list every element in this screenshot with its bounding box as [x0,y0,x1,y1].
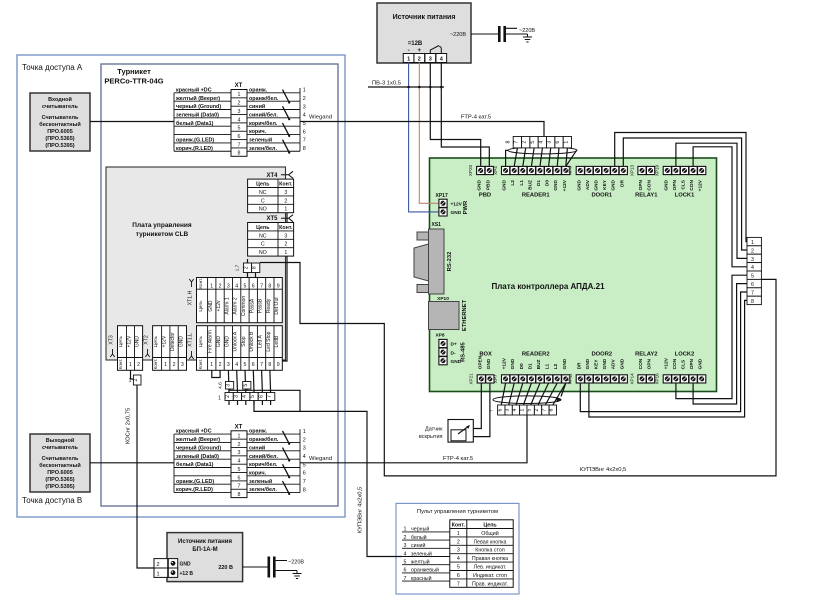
svg-text:7: 7 [513,141,519,144]
svg-text:~220В: ~220В [288,560,304,566]
svg-text:GND: GND [180,562,192,568]
wire: LOCK1 CON to cable cell 4 [693,147,747,267]
svg-text:2: 2 [404,535,407,541]
svg-text:2: 2 [173,362,176,368]
svg-text:2: 2 [133,378,139,381]
mains plug 220V (bottom) [243,566,268,568]
svg-text:2: 2 [418,57,421,63]
svg-text:3: 3 [404,543,407,549]
svg-text:Цепь: Цепь [153,335,159,347]
cable bundle ellipse READER2 [493,396,561,404]
svg-text:XP7: XP7 [493,374,498,383]
svg-text:DR: DR [619,179,625,186]
svg-text:~220В: ~220В [450,32,466,38]
svg-text:(ПРО.5395): (ПРО.5395) [45,484,74,490]
svg-text:CLS: CLS [681,359,687,369]
svg-text:+12 В: +12 В [180,571,194,577]
svg-text:L2: L2 [510,180,516,186]
svg-text:PERCo-TTR-04G: PERCo-TTR-04G [104,77,163,86]
svg-text:Кнопка стоп: Кнопка стоп [475,548,505,554]
pult wire list [402,531,450,533]
connector XP11 (DOOR2) [568,351,628,384]
svg-text:2: 2 [751,248,754,254]
svg-text:GND: GND [135,336,141,348]
svg-text:7: 7 [303,138,306,144]
svg-text:2: 2 [522,141,528,144]
svg-text:~220В: ~220В [519,28,535,34]
svg-text:синий: синий [249,444,265,451]
svg-text:GND: GND [451,210,462,216]
tamper switch (Datchik vskrytiya) [419,420,473,443]
svg-text:3: 3 [429,57,432,63]
svg-text:←: ← [489,408,495,414]
svg-text:Источник питания: Источник питания [178,539,232,545]
svg-text:PBD: PBD [479,193,491,199]
svg-text:ETHERNET: ETHERNET [462,299,468,331]
svg-text:1: 1 [210,362,213,368]
READER1 cable wire numbers [506,137,572,148]
svg-text:5: 5 [303,462,306,468]
svg-text:XT4: XT4 [266,173,278,179]
svg-text:Det Out: Det Out [274,297,280,315]
wires: XP21 BOX to tamper switch [473,383,490,437]
svg-text:XP9: XP9 [568,166,573,175]
svg-text:5: 5 [530,141,536,144]
svg-text:корич/бел.: корич/бел. [249,120,278,127]
svg-text:черный: черный [411,526,429,533]
wire: XT4/XT5 contacts bus [282,211,288,361]
svg-text:READER1: READER1 [522,193,550,199]
svg-text:PassA: PassA [249,298,255,313]
wires: READER1 cells to XP4 pins [506,150,509,166]
connector XT1.L [188,326,283,371]
svg-text:5: 5 [527,408,533,411]
svg-text:3: 3 [505,408,511,411]
svg-text:бесконтактный: бесконтактный [39,121,80,128]
svg-text:ADV: ADV [611,358,617,369]
svg-text:синий: синий [411,542,425,549]
svg-text:4: 4 [235,362,238,368]
wire: LOCK2 CON to cable cell 5 [676,275,747,398]
wire: LOCK1 OPN to cable cell 3 [676,143,747,258]
svg-text:Индикат. стоп: Индикат. стоп [473,573,507,579]
svg-text:4: 4 [457,556,460,562]
svg-text:C: C [261,242,265,248]
svg-text:6: 6 [457,573,460,579]
svg-text:RS-485: RS-485 [461,341,467,361]
svg-text:Wiegand: Wiegand [309,115,332,121]
svg-text:CON: CON [689,179,695,190]
svg-text:Выходной: Выходной [46,437,74,444]
wire: DOOR1 DR to cable cell 2 [623,138,747,250]
svg-text:зелен/бел.: зелен/бел. [249,145,277,152]
connector XT reader B wiring table [174,424,306,498]
svg-text:CLS: CLS [681,179,687,189]
svg-text:7: 7 [541,408,547,411]
svg-text:Цепь: Цепь [256,182,270,188]
svg-text:7: 7 [260,362,263,368]
svg-text:Конт.: Конт. [198,278,203,289]
svg-text:4: 4 [512,408,518,411]
svg-text:Common: Common [241,296,247,317]
svg-text:Unlock A: Unlock A [233,331,239,351]
svg-text:2: 2 [238,442,241,448]
svg-text:Турникет: Турникет [117,67,151,76]
svg-text:DOOR2: DOOR2 [591,351,612,357]
svg-text:Общий: Общий [481,530,498,537]
svg-text:зеленый (Data0): зеленый (Data0) [176,111,219,118]
svg-text:DOOR1: DOOR1 [591,193,612,199]
svg-text:+12V: +12V [698,179,704,191]
svg-text:2: 2 [137,362,140,368]
svg-text:GND: GND [486,358,492,369]
svg-text:4: 4 [238,117,241,123]
wire: Wiegand reader B to table [90,462,174,464]
svg-text:XP13: XP13 [629,164,634,176]
wire: LOCK2 OPN to cable cell 6 [693,284,747,404]
svg-text:2: 2 [284,198,287,204]
svg-text:+12V: +12V [127,335,133,347]
svg-text:BUZ: BUZ [536,359,542,369]
svg-text:черный (Ground): черный (Ground) [176,444,221,451]
svg-text:синий/бел.: синий/бел. [249,111,278,118]
svg-text:1: 1 [156,571,159,577]
svg-text:Цепь: Цепь [198,335,204,347]
svg-text:XT: XT [235,424,243,430]
svg-text:Конт.: Конт. [198,359,203,370]
connector XP20 (PBD) [468,164,493,198]
wire: +12V supply pin2 (red) to XP17 +12V [419,63,439,204]
svg-text:зеленый: зеленый [249,137,272,144]
svg-text:1: 1 [303,429,306,435]
svg-text:Плата контроллера АПДА.21: Плата контроллера АПДА.21 [491,282,605,291]
access zone box (Tochka dostupa A/B) [17,55,345,517]
power supply BP-1A-M [167,533,243,582]
wire: Wiegand bus B to READER2 (FTP-4) [300,415,527,463]
wire: DOOR2 GND to cable cell 8 [589,300,747,417]
svg-text:3: 3 [181,362,184,368]
svg-text:ПРО.6005: ПРО.6005 [47,470,73,476]
svg-text:зеленый (Data0): зеленый (Data0) [176,453,219,460]
svg-text:(ПРО.5395): (ПРО.5395) [45,143,74,149]
svg-text:BUZ: BUZ [527,180,533,190]
svg-text:вскрытия: вскрытия [419,434,443,440]
svg-text:6: 6 [555,141,561,144]
svg-text:Источник питания: Источник питания [393,14,456,21]
svg-text:Плата управления: Плата управления [132,222,192,229]
svg-text:Detector: Detector [170,332,176,351]
jumper XT1.L pins 1-2 [212,370,220,377]
svg-text:KEY: KEY [594,359,600,370]
svg-text:6: 6 [252,362,255,368]
svg-text:7: 7 [303,479,306,485]
svg-text:6: 6 [238,134,241,140]
svg-text:Ready: Ready [266,298,272,313]
svg-text:GND: GND [619,358,625,369]
svg-text:Led A: Led A [258,335,264,348]
svg-text:2: 2 [457,539,460,545]
connector XP7 (READER2) [493,351,570,383]
svg-text:желтый (Beeper): желтый (Beeper) [175,95,220,102]
connector XP21 (BOX) [469,351,494,384]
svg-text:9: 9 [277,284,280,290]
svg-text:GND: GND [562,358,568,369]
svg-text:красный: красный [411,575,432,582]
svg-text:зелен/бел.: зелен/бел. [249,486,277,493]
svg-text:Fire Alarm: Fire Alarm [208,330,214,353]
svg-text:4: 4 [235,284,238,290]
svg-text:КУПЭВнг 4х2х0,5: КУПЭВнг 4х2х0,5 [580,467,627,473]
svg-text:3: 3 [303,104,306,110]
svg-text:3: 3 [284,190,287,196]
wires: XP7 pins to READER2 cells [501,383,505,405]
ground symbol (bottom) [281,571,302,579]
svg-text:XP20: XP20 [468,164,473,176]
svg-text:1: 1 [751,240,754,246]
svg-text:1: 1 [238,434,241,440]
svg-text:2: 2 [156,562,159,568]
svg-text:GND: GND [585,358,591,369]
svg-text:XP14: XP14 [629,373,634,385]
svg-text:LOCK2: LOCK2 [675,351,695,357]
svg-text:7: 7 [751,290,754,296]
svg-text:XT: XT [235,83,243,89]
svg-text:2: 2 [303,96,306,102]
svg-text:Точка доступа В: Точка доступа В [22,496,82,505]
wire: +12V supply pin1 (blue) to XP17 GND [409,63,439,212]
connector XP8 (RS-485) [435,333,466,365]
svg-text:4: 4 [404,551,407,557]
svg-text:белый: белый [411,534,427,541]
svg-text:+12V: +12V [562,179,568,191]
svg-text:5: 5 [243,384,249,387]
connector XP17 (PWR) [436,193,470,216]
svg-text:Цепь: Цепь [198,300,204,312]
svg-text:Stop: Stop [241,336,247,347]
svg-text:XP8: XP8 [435,333,444,339]
svg-text:GND: GND [510,358,516,369]
svg-text:2: 2 [219,284,222,290]
svg-text:желтый: желтый [411,559,430,566]
svg-text:ПРО.6005: ПРО.6005 [47,129,73,135]
wire: supply pin3 to XP20 GND [430,63,480,167]
wire: Wiegand reader A to table [90,121,174,123]
svg-text:OPN: OPN [689,358,695,369]
svg-text:1: 1 [407,57,410,63]
svg-text:зеленый: зеленый [249,478,272,485]
svg-text:Правая кнопка: Правая кнопка [472,556,508,562]
svg-text:XS1: XS1 [432,222,442,228]
svg-text:OPN: OPN [647,358,653,369]
connector XP16 (LOCK2) [655,351,706,384]
svg-text:FTP-4 кат.5: FTP-4 кат.5 [443,456,473,462]
ground symbol (top) [512,34,532,42]
svg-text:D+: D+ [451,342,457,348]
connector XT4 (relay output) [248,171,294,212]
svg-text:2: 2 [238,101,241,107]
svg-text:GND: GND [663,179,669,190]
svg-text:7: 7 [267,395,273,398]
svg-text:красный +DC: красный +DC [176,428,212,435]
svg-text:XT5: XT5 [266,216,278,222]
svg-text:6: 6 [303,129,306,135]
svg-text:RELAY2: RELAY2 [635,351,657,357]
svg-text:Лев. индикат.: Лев. индикат. [474,565,507,571]
svg-text:8: 8 [268,362,271,368]
svg-text:GND: GND [602,358,608,369]
svg-text:Конт.: Конт. [279,225,293,231]
svg-text:+12V: +12V [451,202,463,208]
svg-text:8: 8 [303,487,306,493]
svg-text:Конт.: Конт. [118,359,123,370]
svg-text:2: 2 [284,242,287,248]
svg-text:6: 6 [404,568,407,574]
svg-text:Wiegand: Wiegand [309,456,332,462]
svg-text:9: 9 [277,362,280,368]
svg-text:3: 3 [751,257,754,263]
svg-text:3: 3 [303,446,306,452]
BP-1A-M wire number boxes 2/1 [154,559,168,568]
svg-text:L1: L1 [545,363,551,369]
svg-text:CON: CON [638,358,644,369]
svg-text:Точка доступа А: Точка доступа А [22,63,83,72]
wire: Wiegand bus A to READER1 (FTP-4) [300,122,544,137]
svg-text:белый (Data1): белый (Data1) [176,461,214,468]
svg-text:1: 1 [238,92,241,98]
svg-text:XT3: XT3 [109,335,115,345]
svg-text:1: 1 [519,408,525,411]
svg-text:RS-232: RS-232 [447,252,453,272]
svg-text:PWR: PWR [463,200,469,214]
svg-text:5: 5 [238,467,241,473]
svg-text:OPN: OPN [672,179,678,190]
svg-text:XT2: XT2 [144,335,150,345]
svg-text:6: 6 [238,475,241,481]
svg-text:4: 4 [242,395,248,398]
svg-text:Входной: Входной [48,96,72,103]
svg-text:4: 4 [538,141,544,144]
svg-text:5: 5 [244,362,247,368]
svg-text:5: 5 [303,121,306,127]
svg-text:корич/бел.: корич/бел. [249,461,278,468]
svg-text:оранж/бел.: оранж/бел. [249,436,279,443]
svg-text:GND: GND [224,336,230,348]
svg-text:GND: GND [208,300,214,312]
BP-1A-M terminals [168,559,177,568]
svg-text:желтый (Beeper): желтый (Beeper) [175,436,220,443]
svg-text:Alarm 1: Alarm 1 [224,297,230,314]
connector XT3 [109,326,143,371]
svg-text:7: 7 [457,581,460,587]
svg-text:белый (Data1): белый (Data1) [176,120,214,127]
svg-text:зеленый: зеленый [411,550,432,557]
svg-text:D1: D1 [527,363,533,369]
svg-text:1: 1 [563,141,569,144]
svg-text:RELAY1: RELAY1 [635,193,658,199]
svg-text:4,6: 4,6 [218,382,224,389]
svg-text:3: 3 [284,233,287,239]
svg-text:XP21: XP21 [469,373,474,385]
svg-text:КОСнг 2х0,75: КОСнг 2х0,75 [126,408,132,444]
svg-text:GND: GND [611,179,617,190]
turnstile control panel (Pult upravleniya turniketom) [396,503,519,594]
svg-text:8: 8 [751,299,754,305]
svg-text:1: 1 [303,88,306,94]
svg-text:XP4: XP4 [493,166,498,175]
connector XP14 (RELAY2) [629,351,657,384]
svg-text:CON: CON [647,179,653,190]
svg-text:5: 5 [457,565,460,571]
svg-text:2: 2 [244,266,250,269]
svg-text:GND: GND [698,358,704,369]
svg-text:оранжевый: оранжевый [411,567,439,574]
svg-text:Конт.: Конт. [452,522,466,528]
power supply mains switch symbol [430,46,441,54]
svg-text:1: 1 [284,207,287,213]
svg-text:8: 8 [549,408,555,411]
svg-text:2: 2 [534,408,540,411]
connector XP10 (ETHERNET) [429,296,469,331]
svg-text:оранж.: оранж. [249,87,268,93]
power supply (Istochnik pitaniya) [377,3,471,63]
svg-text:D-: D- [451,350,456,356]
svg-text:BOX: BOX [479,351,492,357]
svg-text:L1: L1 [519,180,525,186]
svg-text:GND: GND [477,179,483,190]
svg-text:корич.: корич. [249,129,267,135]
turnstile box PERCo-TTR-04G [101,64,338,506]
svg-text:7: 7 [260,284,263,290]
svg-text:бесконтактный: бесконтактный [39,462,80,469]
svg-text:3: 3 [226,384,232,387]
svg-text:(ПРО.5365): (ПРО.5365) [45,136,74,142]
reader B (exit contactless reader) [30,434,90,492]
pult table Kont/Tsep [450,520,513,588]
svg-text:1: 1 [218,396,221,402]
svg-text:7: 7 [238,142,241,148]
svg-text:1: 1 [164,362,167,368]
svg-text:4: 4 [303,113,306,119]
CLB turnstile control board [106,167,286,360]
connector XT1.H [188,278,283,323]
svg-text:Цепь: Цепь [483,522,497,528]
svg-text:4: 4 [751,265,754,271]
svg-text:4: 4 [238,459,241,465]
svg-text:оранж.(G.LED): оранж.(G.LED) [176,138,214,144]
wire: DOOR2 DR to cable cell 7 [580,292,747,412]
svg-text:XP11: XP11 [568,373,573,384]
svg-text:6: 6 [497,408,503,411]
svg-text:корич.: корич. [249,470,267,476]
svg-text:8: 8 [506,140,512,143]
svg-text:=12В: =12В [408,41,423,47]
svg-text:XP19: XP19 [655,164,660,176]
connector XS1 (RS-232) [414,222,453,294]
svg-text:XT1.H: XT1.H [188,290,194,305]
svg-text:1: 1 [457,531,460,537]
connector XT2 [144,326,187,371]
svg-text:8: 8 [238,492,241,498]
svg-text:синий: синий [249,103,265,110]
svg-text:1: 1 [210,284,213,290]
svg-text:2: 2 [303,437,306,443]
svg-text:(ПРО.5365): (ПРО.5365) [45,477,74,483]
wire: supply pin4 to XP20 PBD [441,63,489,167]
svg-text:PassB: PassB [258,298,264,313]
READER2 cable wire numbers [489,405,557,415]
wire: XT3 to BP-1A-M (KOSng 2x0,75) [131,370,155,568]
svg-text:3: 3 [238,450,241,456]
